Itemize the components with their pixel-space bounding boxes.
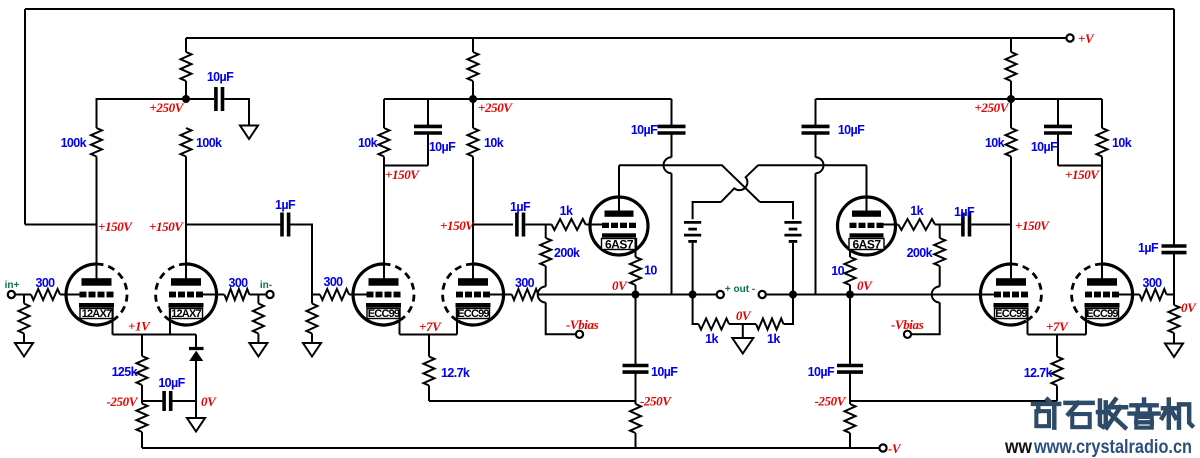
label +250V left: [149, 100, 184, 115]
triode U3 ECC99 left: [353, 264, 414, 325]
resistor 10k ECC99 right outer load: [1097, 128, 1132, 157]
svg-text:12.7k: 12.7k: [441, 366, 470, 380]
wire -250V row right: [850, 400, 1057, 402]
wire 200k to hop: [545, 266, 547, 287]
svg-text:+150V: +150V: [149, 219, 184, 234]
wire R drop right to +250V node: [1010, 81, 1012, 99]
svg-text:100k: 100k: [196, 136, 222, 150]
svg-text:10k: 10k: [358, 136, 378, 150]
resistor left -250V to -V: [630, 404, 641, 433]
svg-text:1µF: 1µF: [275, 198, 296, 212]
svg-text:200k: 200k: [554, 246, 580, 260]
wire driver +150V row: [473, 224, 513, 226]
hop 200k left over output rail: [538, 287, 546, 303]
svg-text:0V: 0V: [1181, 300, 1197, 315]
wire center tap to ground sym: [742, 324, 744, 338]
wire +250V node to bypass cap: [186, 98, 214, 100]
wire -250V row left: [429, 400, 636, 402]
svg-text:+150V: +150V: [98, 219, 133, 234]
wire R drop left to +250V node: [185, 81, 187, 99]
ground output center: [732, 338, 753, 354]
wire 10 left to output node: [635, 285, 637, 295]
capacitor 1uF coupling left: [275, 198, 296, 237]
wire 200k left drop: [545, 225, 547, 239]
svg-text:10k: 10k: [484, 136, 504, 150]
svg-text:6AS7: 6AS7: [852, 238, 881, 252]
label 0V center: [736, 308, 752, 323]
capacitor 1uF feedback: [1138, 241, 1187, 255]
svg-text:www.crystalradio.cn: www.crystalradio.cn: [1033, 437, 1192, 458]
wire tail cap to diode leg: [172, 400, 196, 402]
svg-text:-Vbias: -Vbias: [891, 317, 924, 332]
svg-text:0V: 0V: [201, 394, 217, 409]
wire bypass cap to ground: [224, 99, 249, 126]
triode V1 6AS7 left: [590, 197, 648, 255]
resistor 200k left grid leak: [540, 238, 580, 266]
label -Vbias right: [891, 317, 924, 332]
svg-text:300: 300: [515, 276, 535, 290]
svg-text:10µF: 10µF: [808, 365, 835, 379]
svg-text:100k: 100k: [61, 136, 87, 150]
capacitor 10uF left floating supply: [631, 123, 686, 137]
label -V: [888, 441, 902, 456]
label -Vbias left: [566, 317, 599, 332]
hop right floating over plate line: [816, 157, 824, 173]
wire in+ shunt drop: [23, 295, 25, 304]
wire 0V node to ground sym: [195, 401, 197, 418]
wire left floating B+ drop: [671, 99, 673, 126]
wire +7V rail left: [400, 334, 458, 336]
junction left battery node: [689, 291, 697, 299]
triode U2 12AX7 right: [156, 264, 217, 325]
wire +1V cathode rail: [113, 334, 197, 336]
resistor 1k 6AS7 left grid: [552, 204, 586, 230]
wire ECC99 grid leak drop: [311, 295, 313, 304]
resistor right -250V to -V: [845, 404, 856, 433]
resistor 300 in- grid stopper: [224, 276, 249, 300]
svg-text:10µF: 10µF: [207, 70, 234, 84]
wire R drop mid to +250V node: [472, 81, 474, 99]
svg-text:+V: +V: [1078, 31, 1095, 46]
terminal out-: [759, 291, 766, 298]
wire 10k inner to +150V row: [472, 99, 474, 225]
wire decoupling cap drop left: [427, 99, 429, 126]
wire 300 to ECC99 left grid: [349, 294, 367, 296]
junction right output node: [846, 291, 854, 299]
wire plate lead 12AX7 left: [96, 225, 98, 282]
wire feedback shunt drop: [1173, 295, 1175, 306]
wire +V rail to R drop left: [185, 38, 187, 52]
wire 100k left to +150V rail: [96, 157, 98, 225]
svg-text:1k: 1k: [560, 204, 573, 218]
resistor 1k 6AS7 right grid: [898, 204, 935, 230]
capacitor 1uF coupling 6AS7 right: [954, 205, 975, 237]
label +1V: [128, 319, 151, 334]
svg-text:0V: 0V: [612, 278, 628, 293]
wire 1k left to center: [729, 323, 756, 325]
ground input B+ bypass: [240, 126, 258, 140]
wire ECC99 right plate lead: [1101, 166, 1103, 282]
wire right output node down: [849, 295, 851, 366]
svg-text:1µF: 1µF: [510, 200, 531, 214]
triode U4 ECC99 right: [443, 264, 504, 325]
junction left +250V node: [182, 95, 190, 103]
label -250V mid left: [640, 394, 672, 409]
resistor right supply drop: [1006, 52, 1017, 81]
wire 6AS7 left cathode lead: [635, 238, 637, 257]
watermark graphic: [1004, 400, 1192, 458]
label + out -: [725, 284, 755, 295]
label +150V mid left: [385, 167, 420, 182]
wire 10k inner right: [1010, 99, 1012, 225]
wire 10k outer right: [1101, 99, 1103, 166]
label +150V mid right: [1065, 167, 1100, 182]
wire left floating cap down: [671, 133, 673, 157]
svg-text:in-: in-: [260, 280, 272, 291]
wire top feedback rail: [25, 8, 1174, 10]
wire left output node down: [635, 295, 637, 366]
resistor 10 left cathode: [630, 257, 657, 285]
label +150V input right: [149, 219, 184, 234]
wire 6AS7 right cathode lead: [849, 238, 851, 257]
terminal +V: [1066, 34, 1073, 41]
label in-: [260, 280, 272, 291]
wire left driver +250V rail: [384, 98, 672, 100]
triode U5 ECC99 third: [980, 264, 1041, 325]
hop left floating over plate line: [664, 157, 672, 173]
wire right plate diagonal with hop: [721, 165, 758, 202]
wire in+ to grid resistor: [15, 294, 31, 296]
svg-text:10: 10: [644, 264, 657, 278]
wire right battery to output node: [792, 243, 794, 295]
capacitor 10uF input B+ bypass: [207, 70, 234, 111]
svg-text:12.7k: 12.7k: [1024, 366, 1053, 380]
wire ECC99 left plate lead: [383, 166, 385, 282]
resistor in+ shunt to ground: [19, 304, 30, 334]
junction right battery node: [789, 291, 797, 299]
battery right floating supply: [784, 222, 801, 241]
wire left plate diagonal: [722, 165, 760, 202]
svg-text:-Vbias: -Vbias: [566, 317, 599, 332]
label +150V driver left: [440, 218, 475, 233]
svg-text:+250V: +250V: [149, 100, 184, 115]
wire 6AS7 left plate lead: [618, 165, 620, 211]
svg-text:300: 300: [228, 276, 248, 290]
svg-text:+7V: +7V: [419, 319, 442, 334]
label 0V tail: [201, 394, 217, 409]
svg-text:+150V: +150V: [440, 218, 475, 233]
svg-text:+250V: +250V: [478, 100, 513, 115]
wire left resistor to bottom rail: [635, 401, 637, 448]
terminal in+: [8, 291, 15, 298]
wire ECC99 left grid link: [312, 294, 320, 296]
wire +150V mid link: [384, 165, 428, 167]
diode bias clamp: [189, 349, 204, 362]
svg-text:10: 10: [831, 264, 844, 278]
junction driver +250V node: [469, 95, 477, 103]
svg-text:ww: ww: [1004, 437, 1032, 458]
wire +7V rail right: [1028, 334, 1087, 336]
wire +150V mid link right: [1058, 165, 1102, 167]
wire -250V node to tail cap: [142, 400, 162, 402]
wire 300 to feedback frame: [1167, 294, 1175, 296]
svg-text:ECC99: ECC99: [995, 308, 1027, 320]
label +V: [1078, 31, 1095, 46]
label +250V right: [974, 100, 1009, 115]
svg-text:+7V: +7V: [1046, 319, 1069, 334]
svg-text:1µF: 1µF: [1138, 241, 1159, 255]
resistor 300 feedback grid: [1140, 276, 1167, 300]
svg-text:1k: 1k: [910, 204, 923, 218]
wire output rail right: [766, 294, 995, 296]
wire +V supply rail: [186, 37, 1067, 39]
resistor 300 ECC99 feedback grid: [512, 276, 539, 300]
svg-text:0V: 0V: [736, 308, 752, 323]
wire +7V right to 12.7k: [1056, 335, 1058, 357]
wire coupling cap to ECC99 grid: [289, 225, 312, 295]
wire 10 right to output node: [849, 285, 851, 295]
resistor 1k balance left: [699, 319, 730, 347]
svg-text:in+: in+: [5, 280, 20, 291]
resistor 10k ECC99 left outer load: [358, 128, 390, 157]
svg-text:10µF: 10µF: [838, 123, 865, 137]
wire left plate line: [619, 164, 723, 166]
label +150V input left: [98, 219, 133, 234]
wire 12.7k to -250V row: [428, 386, 430, 402]
terminal -Vbias right: [904, 331, 911, 338]
wire left +250V node rail: [97, 99, 187, 128]
wire left output cap to -250V: [635, 372, 637, 401]
label -250V tail: [106, 394, 138, 409]
wire tail resistor to bottom rail: [141, 401, 143, 404]
wire ECC99 left cathode lead: [399, 308, 401, 335]
resistor 1k balance right: [756, 319, 784, 347]
resistor feedback shunt: [1169, 305, 1180, 333]
capacitor 1uF coupling 6AS7 left: [510, 200, 531, 237]
wire battery node to 1k left: [693, 295, 699, 325]
junction right +250V node: [1007, 95, 1015, 103]
svg-text:ECC99: ECC99: [368, 308, 400, 320]
wire 1k to 6AS7 left grid: [586, 224, 602, 226]
wire left feedback frame: [24, 9, 26, 225]
wire ECC99 inner plate lead: [472, 225, 474, 282]
resistor 10k ECC99 left inner load: [468, 128, 504, 157]
resistor 10 right cathode: [831, 257, 855, 285]
label +250V middle: [478, 100, 513, 115]
wire 200k to -Vbias: [546, 303, 577, 335]
svg-text:10µF: 10µF: [158, 376, 185, 390]
triode U1 12AX7 left: [66, 264, 127, 325]
wire 12AX7 right cathode lead: [169, 308, 171, 335]
wire tail resistor lead: [141, 432, 143, 448]
wire 6AS7 right plate lead: [866, 165, 868, 211]
label 0V feedback: [1181, 300, 1197, 315]
svg-text:+1V: +1V: [128, 319, 151, 334]
wire 12AX7 right grid to resistor: [203, 294, 224, 296]
wire ECC99 fourth grid link: [1119, 294, 1140, 296]
wire 10k outer to +150V mid: [383, 157, 385, 166]
svg-text:-250V: -250V: [106, 394, 138, 409]
wire ECC99 right inner plate lead: [1010, 225, 1012, 282]
svg-text:10µF: 10µF: [631, 123, 658, 137]
wire right floating cap down: [815, 133, 817, 157]
svg-text:12AX7: 12AX7: [82, 308, 112, 320]
label +7V left: [419, 319, 442, 334]
resistor left supply drop: [181, 52, 192, 81]
svg-text:10k: 10k: [985, 136, 1005, 150]
svg-text:ECC99: ECC99: [1086, 308, 1118, 320]
capacitor 10uF left output: [623, 365, 679, 379]
wire ECC99 third cathode lead: [1027, 308, 1029, 335]
wire right feedback frame lower: [1173, 253, 1175, 295]
label -250V mid right: [814, 394, 846, 409]
wire 200k right to hop: [939, 266, 941, 287]
capacitor 10uF right output: [808, 365, 863, 379]
wire right output cap to -250V: [849, 372, 851, 401]
svg-text:+ out -: + out -: [725, 284, 755, 295]
wire -V bottom rail: [142, 447, 880, 449]
svg-text:10µF: 10µF: [651, 365, 678, 379]
label 0V right: [857, 278, 873, 293]
wire ECC99 fourth cathode lead: [1085, 308, 1087, 335]
wire 200k right to -Vbias: [911, 303, 940, 335]
terminal in-: [266, 291, 273, 298]
wire 100k right to +150V rail: [185, 157, 187, 225]
svg-text:300: 300: [323, 275, 343, 289]
label in+: [5, 280, 20, 291]
resistor 100k left plate load: [61, 128, 102, 157]
wire ECC99 right cathode lead: [456, 308, 458, 335]
resistor 10k ECC99 right inner load: [985, 128, 1017, 157]
capacitor 10uF tail bypass: [158, 376, 185, 411]
terminal -V: [879, 444, 886, 451]
wire plate lead 12AX7 right: [185, 225, 187, 282]
wire output rail left: [538, 294, 716, 296]
wire ECC99 right grid link: [490, 294, 512, 296]
resistor 300 ECC99 left grid: [320, 275, 349, 300]
wire left floating to output rail: [671, 173, 673, 294]
svg-text:300: 300: [1142, 276, 1162, 290]
svg-text:1µF: 1µF: [954, 205, 975, 219]
svg-text:-V: -V: [888, 441, 902, 456]
wire right floating to output rail: [815, 173, 817, 294]
wire +V rail to R drop mid: [472, 38, 474, 52]
wire cap to 200k junction: [525, 224, 551, 226]
wire +V rail to R drop right: [1010, 38, 1012, 52]
junction left output node: [632, 291, 640, 299]
triode V2 6AS7 right: [838, 197, 896, 255]
wire +150V rail right segment: [186, 224, 281, 226]
svg-text:1k: 1k: [705, 332, 718, 346]
triode U6 ECC99 fourth: [1072, 264, 1133, 325]
wire +150V rail left segment: [25, 224, 97, 226]
resistor 125k tail: [112, 356, 148, 385]
label 0V left: [612, 278, 628, 293]
ground in+ shunt: [15, 343, 33, 357]
wire in+ shunt to ground sym: [23, 334, 25, 344]
resistor 200k right grid leak: [907, 238, 946, 266]
capacitor 10uF right floating supply: [802, 123, 866, 137]
wire in- shunt to ground sym: [257, 334, 259, 344]
wire diode to 0V node: [195, 360, 197, 401]
resistor middle supply drop: [468, 52, 479, 81]
svg-text:+150V: +150V: [385, 167, 420, 182]
wire +250V to 10k outer: [383, 99, 385, 128]
wire feedback shunt to ground sym: [1173, 333, 1175, 344]
svg-text:ECC99: ECC99: [457, 308, 489, 320]
wire left battery to output node: [692, 243, 694, 295]
resistor tail to -V: [137, 404, 148, 433]
svg-text:1k: 1k: [767, 332, 780, 346]
wire in- shunt drop: [257, 295, 259, 304]
svg-text:0V: 0V: [857, 278, 873, 293]
svg-text:-250V: -250V: [814, 394, 846, 409]
ground feedback shunt: [1165, 344, 1183, 358]
wire decoupling cap to +150V mid: [427, 133, 429, 165]
wire +7V rail to 12.7k: [428, 335, 430, 357]
svg-text:125k: 125k: [112, 365, 138, 379]
wire 1k right to battery node: [784, 295, 794, 325]
battery left floating supply: [684, 222, 701, 241]
svg-text:200k: 200k: [907, 246, 933, 260]
wire cathode rail to diode: [195, 335, 197, 348]
svg-text:+150V: +150V: [1015, 218, 1050, 233]
label +7V right: [1046, 319, 1069, 334]
capacitor 10uF ECC99 left decouple: [414, 126, 456, 154]
terminal -Vbias left: [576, 331, 583, 338]
wire 1k to 200k junction right: [935, 224, 961, 226]
svg-text:10k: 10k: [1112, 136, 1132, 150]
wire cathode rail to 125k: [141, 335, 143, 357]
wire right resistor to bottom rail: [849, 401, 851, 448]
wire right plate to left battery: [693, 202, 721, 219]
wire 125k to -250V node: [141, 385, 143, 401]
svg-text:12AX7: 12AX7: [171, 308, 201, 320]
svg-text:6AS7: 6AS7: [605, 238, 634, 252]
wire decoupling cap drop right: [1057, 99, 1059, 126]
resistor 300 in+ grid stopper: [31, 276, 60, 300]
resistor in- shunt to ground: [253, 304, 264, 334]
svg-text:10µF: 10µF: [1031, 140, 1058, 154]
wire grid leak to ground sym: [311, 334, 313, 344]
ground ECC99 left grid leak: [303, 343, 321, 357]
wire 300 to in- terminal: [249, 294, 266, 296]
wire 12.7k right to -250V row: [1056, 386, 1058, 402]
wire right driver +250V rail: [816, 98, 1103, 100]
wire 300 to 12AX7 left grid: [60, 294, 80, 296]
hop 200k right over output rail: [932, 287, 940, 303]
resistor 100k right plate load: [181, 128, 223, 157]
resistor 12.7k right: [1024, 357, 1063, 386]
terminal out+: [717, 291, 724, 298]
svg-text:10µF: 10µF: [429, 140, 456, 154]
ground in- shunt: [249, 343, 267, 357]
capacitor 10uF ECC99 right decouple: [1031, 126, 1072, 154]
svg-text:+250V: +250V: [974, 100, 1009, 115]
ground tail network: [187, 418, 205, 432]
wire cap to +150V node right: [971, 224, 1011, 226]
resistor ECC99 left grid leak: [307, 304, 318, 334]
svg-text:300: 300: [35, 276, 55, 290]
wire right feedback frame upper: [1173, 9, 1175, 246]
wire decoupling cap right down: [1057, 133, 1059, 165]
wire 200k right drop: [939, 225, 941, 239]
svg-text:+150V: +150V: [1065, 167, 1100, 182]
svg-text:-250V: -250V: [640, 394, 672, 409]
resistor 12.7k left: [424, 357, 470, 386]
wire right floating B+ drop: [815, 99, 817, 126]
wire 6AS7 right grid link: [884, 224, 899, 226]
